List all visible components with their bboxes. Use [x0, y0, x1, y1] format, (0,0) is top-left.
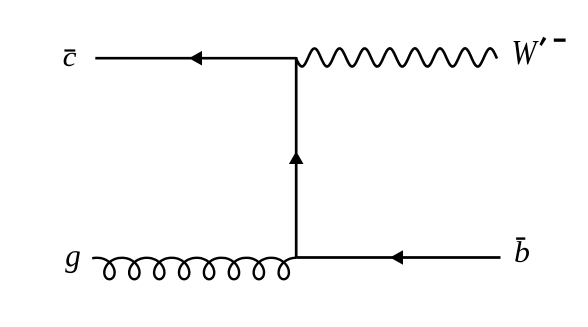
label W' with prime and superscript minus: [514, 41, 539, 65]
arrow on b-bar line (pointing left): [390, 250, 403, 265]
wire: internal quark propagator (vertical): [295, 57, 298, 258]
arrow on c-bar line (pointing left): [189, 51, 202, 66]
label c-bar: [64, 53, 77, 67]
boson W' wavy line: [296, 48, 497, 66]
label b-bar: [515, 241, 529, 262]
gluon curly line: [92, 258, 296, 279]
label g (gluon): [65, 251, 80, 273]
arrow on vertical propagator (pointing up): [289, 151, 304, 164]
wire: antiquark c-bar fermion line (top horizontal): [95, 57, 296, 60]
wire: antiquark b-bar fermion line (bottom right horizontal): [296, 256, 500, 259]
